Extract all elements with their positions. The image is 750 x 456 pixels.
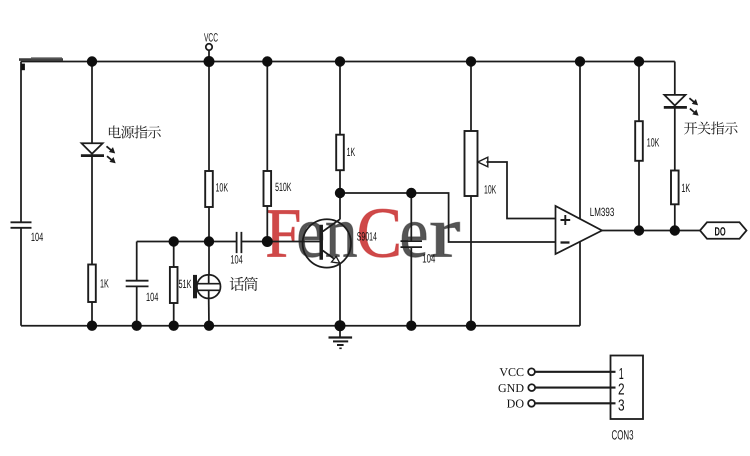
svg-text:510K: 510K xyxy=(275,180,291,194)
label 开关指示 switch indicator xyxy=(684,122,737,135)
node: top rail junctions xyxy=(87,56,97,66)
wire: CON3 pin 2 xyxy=(535,387,615,389)
op-amp U1 LM393 xyxy=(556,206,603,254)
wire: right-end vertical (bottom rail up to top rail) xyxy=(579,62,581,326)
svg-text:2: 2 xyxy=(618,382,625,399)
svg-text:51K: 51K xyxy=(179,277,192,291)
svg-text:104: 104 xyxy=(31,230,44,244)
wire: R3 to mid rail xyxy=(208,207,210,242)
svg-text:1K: 1K xyxy=(681,181,690,195)
wire: left vertical upper segment xyxy=(20,62,22,222)
wire: top rail xyxy=(21,61,675,63)
op-amp minus input sign xyxy=(561,241,570,243)
op-amp plus input sign xyxy=(561,215,571,225)
svg-text:104: 104 xyxy=(422,252,435,266)
fuse-like smudge top-left xyxy=(19,58,63,61)
wire: VCC column to R3 xyxy=(208,62,210,172)
ground symbol xyxy=(339,326,341,337)
wire: R5 510K column upper xyxy=(266,62,268,172)
svg-text:LM393: LM393 xyxy=(590,205,615,219)
wire: R8 to output rail xyxy=(674,204,676,230)
svg-text:S9014: S9014 xyxy=(357,229,377,243)
wire: VCC stub xyxy=(208,50,210,61)
potentiometer wiper arrow xyxy=(478,157,488,167)
wire: emitter to bottom rail xyxy=(339,264,341,326)
wire: cap C4 column upper xyxy=(410,193,412,241)
wire: base rail from C3 to transistor xyxy=(241,241,319,243)
wire: cap C2 column upper xyxy=(136,242,138,281)
wire: LED2 to R8 xyxy=(674,107,676,170)
wire: LED2 column from top rail xyxy=(674,62,676,95)
wire: LED1 to R2 xyxy=(91,156,93,265)
wire: mid rail horizontal xyxy=(137,241,237,243)
resistor R6 1K body xyxy=(336,135,344,171)
wire: R6 to collector node xyxy=(339,170,341,193)
wire: cap C2 column lower xyxy=(136,287,138,326)
label 电源指示 power indicator xyxy=(109,125,161,138)
wire: R6 1K column upper xyxy=(339,62,341,135)
wire: pot column upper xyxy=(470,62,472,132)
microphone MK1 body xyxy=(197,275,221,299)
svg-text:1K: 1K xyxy=(100,277,109,291)
VCC terminal circle xyxy=(206,44,212,50)
wire: R7 10K right column upper xyxy=(638,62,640,122)
resistor R2 1K body xyxy=(88,265,96,303)
wire: LED1 column upper xyxy=(91,62,93,144)
capacitor C3 104 coupling plates xyxy=(237,232,242,253)
svg-text:VCC: VCC xyxy=(204,31,218,45)
svg-text:DO: DO xyxy=(715,225,726,239)
wire: CON3 pin 1 xyxy=(535,371,616,373)
svg-text:10K: 10K xyxy=(484,182,496,196)
node: mid rail junctions xyxy=(169,236,179,246)
LED D1 power indicator symbol xyxy=(82,143,103,154)
resistor R3 10K body xyxy=(205,171,213,207)
svg-text:3: 3 xyxy=(618,398,625,415)
wire: mic to bottom rail xyxy=(208,298,210,325)
svg-text:GND: GND xyxy=(498,381,524,395)
wire: R4 to bottom rail xyxy=(173,303,175,326)
wire: bottom rail xyxy=(21,325,580,327)
node: bottom rail junctions xyxy=(87,321,97,331)
svg-text:104: 104 xyxy=(230,253,242,267)
svg-text:104: 104 xyxy=(146,290,159,304)
wire: collector rail xyxy=(340,193,556,242)
connector CON3 pin circles xyxy=(528,368,535,375)
LED D1 light arrows xyxy=(107,146,113,151)
wire: R7 to output rail xyxy=(638,161,640,231)
potentiometer RP1 10K body xyxy=(465,131,478,196)
capacitor C1 104 left plates xyxy=(11,222,32,228)
LED D2 switch indicator symbol xyxy=(664,95,685,106)
svg-text:1K: 1K xyxy=(347,145,356,159)
wire: mid rail to mic xyxy=(208,242,210,276)
wire: output rail xyxy=(602,230,700,232)
capacitor C4 104 plates xyxy=(401,241,423,247)
svg-text:VCC: VCC xyxy=(499,365,524,379)
svg-text:CON3: CON3 xyxy=(612,427,634,442)
resistor R7 10K body xyxy=(635,121,643,161)
DO tag xyxy=(700,222,747,238)
transistor Q1 S9014 xyxy=(303,219,351,267)
node: output rail junctions xyxy=(634,225,644,235)
wire: R5 to base rail xyxy=(266,206,268,242)
wire: R4 51K column upper xyxy=(173,242,175,268)
node: collector rail junctions xyxy=(335,188,345,198)
resistor R8 1K body xyxy=(671,171,679,205)
svg-text:10K: 10K xyxy=(647,136,660,150)
LED D2 light arrows xyxy=(689,98,695,103)
label 话筒 microphone xyxy=(230,277,258,291)
svg-text:10K: 10K xyxy=(216,180,229,194)
wire: cap C4 column lower xyxy=(410,248,412,326)
watermark FenCer xyxy=(265,193,461,274)
wire: pot to bottom rail xyxy=(470,196,472,326)
connector CON3 body xyxy=(611,356,644,420)
wire: left vertical lower segment xyxy=(20,228,22,325)
capacitor C2 104 plates xyxy=(126,281,149,287)
wire: CON3 pin 3 xyxy=(535,402,616,404)
wire: R2 to bottom rail xyxy=(91,302,93,326)
resistor R4 51K body xyxy=(170,267,178,303)
svg-text:1: 1 xyxy=(619,366,624,383)
resistor R5 510K body xyxy=(264,171,272,206)
svg-text:DO: DO xyxy=(507,397,525,411)
